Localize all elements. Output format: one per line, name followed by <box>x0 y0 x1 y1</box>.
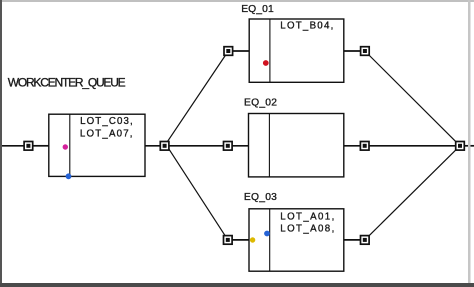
wire: EQ_02 output node to right hub node <box>365 145 460 147</box>
svg-text:WORKCENTER_QUEUE: WORKCENTER_QUEUE <box>8 75 126 89</box>
svg-text:LOT_B04,: LOT_B04, <box>280 21 333 32</box>
dot: magenta lot in queue <box>63 144 68 149</box>
node: EQ_03 input connector <box>224 236 233 245</box>
svg-text:EQ_02: EQ_02 <box>244 97 277 108</box>
wire: left edge to input node <box>2 145 24 147</box>
node: EQ_02 input connector <box>224 142 233 151</box>
node: hub connector after queue <box>160 142 169 151</box>
node: right hub connector <box>456 142 465 151</box>
dot: red lot in EQ_01 <box>263 60 269 66</box>
node: input connector <box>24 142 33 151</box>
wire: EQ_01 to EQ_01 output node <box>344 50 365 52</box>
dot: blue lot in EQ_03 <box>264 231 270 237</box>
svg-text:LOT_A01,: LOT_A01, <box>280 212 334 223</box>
dot: blue lot on queue bottom edge <box>66 173 72 179</box>
svg-text:LOT_A07,: LOT_A07, <box>80 129 133 140</box>
wire: EQ_02 input node to EQ_02 <box>228 145 249 147</box>
wire: EQ_01 input node to EQ_01 <box>228 50 249 52</box>
wire: diagonal hub to EQ_03 input node <box>167 147 228 240</box>
node: EQ_03 output connector <box>361 236 370 245</box>
wire: EQ_03 to EQ_03 output node <box>344 239 365 241</box>
wire: EQ_02 to EQ_02 output node <box>344 145 365 147</box>
block WORKCENTER_QUEUE <box>49 114 145 176</box>
wire: diagonal EQ_01 output to right hub node <box>365 51 460 146</box>
wire: right hub node to right edge <box>460 145 474 147</box>
wire: EQ_03 input node to EQ_03 <box>228 239 249 241</box>
wire: diagonal EQ_03 output to right hub node <box>365 146 460 240</box>
svg-text:LOT_A08,: LOT_A08, <box>280 224 334 235</box>
wire: diagonal hub to EQ_01 input node <box>165 51 229 146</box>
node: EQ_01 input connector <box>224 47 233 56</box>
block EQ_02 <box>249 114 344 177</box>
wire: WORKCENTER_QUEUE to hub node <box>145 145 165 147</box>
block EQ_01 <box>249 19 344 82</box>
wire: hub node to EQ_02 input node <box>165 145 228 147</box>
svg-text:EQ_03: EQ_03 <box>244 192 277 203</box>
node: EQ_01 output connector <box>361 47 370 56</box>
wire: input node to WORKCENTER_QUEUE <box>33 145 49 147</box>
dot: yellow lot entering EQ_03 <box>250 237 255 242</box>
node: EQ_02 output connector <box>360 142 369 151</box>
block EQ_03 <box>249 209 344 271</box>
svg-text:EQ_01: EQ_01 <box>241 4 274 15</box>
svg-text:LOT_C03,: LOT_C03, <box>80 116 133 127</box>
